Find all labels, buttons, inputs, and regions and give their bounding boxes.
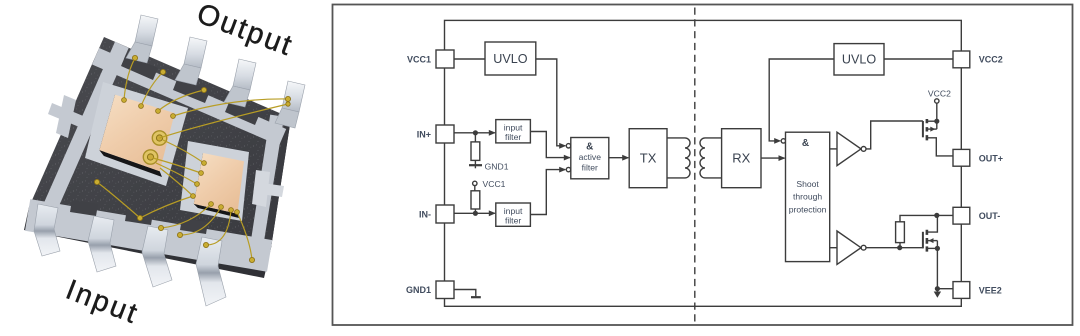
- die 1 coil pad A: [152, 131, 166, 145]
- wire VCC1 terminal to resistor R2: [474, 186, 476, 191]
- svg-text:VCC1: VCC1: [407, 54, 431, 64]
- svg-text:VCC2: VCC2: [928, 88, 951, 98]
- svg-text:Input: Input: [61, 274, 143, 331]
- junction node VEE2 wire: [935, 286, 940, 291]
- wire VCC1 pin to UVLO1: [454, 58, 485, 60]
- package body right side face: [264, 118, 291, 252]
- transistor Q1 body arrow: [930, 127, 935, 132]
- buffer U1 (top driver): [837, 132, 861, 165]
- die 2 side faces: [194, 153, 207, 208]
- bottom rail dark notches: [70, 200, 98, 216]
- bond wires die1 to die2: [163, 140, 204, 163]
- block RX: [722, 129, 761, 188]
- arrow into input filter 2: [489, 210, 496, 216]
- long bond wire bottom left: [97, 182, 140, 218]
- pin IN+: [436, 125, 454, 143]
- junction node OUT- drain: [934, 213, 939, 218]
- svg-text:through: through: [793, 192, 822, 202]
- inversion bubble active filter input 1: [566, 144, 570, 148]
- resistor R1: [471, 142, 480, 161]
- svg-text:UVLO: UVLO: [842, 53, 876, 67]
- transistor Q2 channel segments: [926, 230, 929, 252]
- ground GND1 internal: [469, 164, 482, 166]
- wire buffer1 to top MOSFET gate: [866, 121, 923, 149]
- package body (die-attach substrate): [29, 37, 291, 248]
- inversion bubble active filter input 3: [566, 167, 570, 171]
- leadframe left tie-bar T: [48, 103, 88, 129]
- block shoot-through protection AND: [786, 132, 830, 261]
- transistor Q2 gate bar: [922, 232, 924, 249]
- resistor R2: [471, 191, 480, 209]
- top rail dark notches: [121, 54, 158, 80]
- svg-text:VEE2: VEE2: [979, 286, 1002, 296]
- transformer primary coil: [685, 138, 690, 178]
- transistor Q1 channel segments: [926, 119, 929, 140]
- lead 8 (bottom): [196, 237, 226, 306]
- lead 4 (top right corner): [282, 81, 305, 112]
- isolation barrier dashed line: [694, 8, 696, 323]
- die pad 1 (left, silver): [85, 82, 188, 186]
- lead 1 (top): [135, 15, 158, 46]
- lead 3 (top): [233, 59, 256, 90]
- wire R3 bottom to junction: [899, 243, 901, 248]
- wire RX to shoot-through AND input 2: [761, 157, 785, 159]
- transistor Q2 source tick: [927, 247, 938, 249]
- svg-text:TX: TX: [640, 151, 657, 166]
- transistor Q1 drain to OUT+: [927, 138, 953, 156]
- die 1 coil pad B: [143, 150, 157, 164]
- arrow into active filter input 1: [559, 143, 566, 149]
- block TX: [629, 129, 667, 188]
- pin IN-: [436, 205, 454, 223]
- die pad 2 (right, silver): [180, 141, 249, 221]
- transistor Q1 gate bar: [922, 121, 924, 137]
- resistor R3: [896, 222, 905, 243]
- wire R2 to IN- wire junction: [474, 209, 476, 213]
- wire IN+ pin to input filter 1: [454, 132, 495, 134]
- lead 7 (bottom): [142, 226, 172, 287]
- leadframe top rail: [92, 48, 286, 146]
- svg-text:IN-: IN-: [419, 209, 431, 219]
- arrow into input filter 1: [489, 130, 496, 136]
- block input filter 2: [496, 203, 531, 226]
- transistor Q2 body arrow: [929, 238, 934, 243]
- pin OUT-: [953, 207, 970, 224]
- wire UVLO1 output to active filter input 1: [536, 59, 565, 146]
- bond wires die2 to bottom rail: [140, 196, 193, 218]
- arrow into AND input 1: [774, 138, 781, 144]
- buffer U2 bubble: [861, 245, 866, 250]
- wire input filter 2 to active filter input 3: [530, 170, 565, 215]
- wire to VEE2 pin: [937, 288, 953, 290]
- svg-text:VCC2: VCC2: [979, 54, 1003, 64]
- transformer secondary coil: [700, 138, 705, 178]
- die 2 (output die): [194, 153, 244, 214]
- wire UVLO2 to VCC2 pin: [884, 58, 953, 60]
- arrow into AND input 2: [779, 155, 786, 161]
- wire input filter 1 to active filter input 2: [530, 132, 569, 158]
- block UVLO1: [485, 42, 536, 75]
- bond wires die1 to top rail: [97, 58, 288, 260]
- arrow into active filter input 2: [564, 155, 571, 161]
- junction node Q2 source: [935, 246, 940, 251]
- pin VEE2: [953, 282, 970, 299]
- svg-text:UVLO: UVLO: [493, 52, 527, 66]
- lead 5 (bottom): [34, 204, 60, 256]
- bond stitch dots: [94, 55, 290, 262]
- panel frame: [333, 5, 1073, 326]
- package body bottom side face: [24, 207, 271, 278]
- wire Q2 body-source down to VEE2: [936, 241, 938, 292]
- wire UVLO2 to AND input 1: [769, 59, 834, 141]
- wire TX to transformer primary top: [667, 137, 685, 139]
- block active filter: [571, 138, 609, 179]
- wire R1 to ground: [474, 160, 476, 168]
- pin VCC1: [436, 50, 454, 68]
- svg-text:filter: filter: [505, 132, 521, 142]
- buffer U2 (bottom driver): [837, 231, 861, 264]
- chip outline rectangle: [445, 20, 962, 306]
- pin VCC2: [953, 51, 970, 68]
- pin OUT+: [953, 149, 970, 166]
- arrow down to substrate: [934, 292, 941, 298]
- svg-text:Shoot: Shoot: [796, 179, 819, 189]
- svg-text:Output: Output: [193, 0, 298, 63]
- block UVLO2: [834, 44, 884, 75]
- junction node top MOSFET source/body: [934, 119, 939, 124]
- transistor Q2 body line: [927, 240, 938, 242]
- transistor Q2 drain tick to OUT- junction: [927, 215, 938, 232]
- ground GND1 pin symbol bar: [471, 296, 481, 298]
- wire active filter to TX: [609, 157, 628, 159]
- svg-text:GND1: GND1: [485, 162, 509, 172]
- leadframe left rail: [40, 42, 129, 218]
- arrow into TX: [622, 155, 629, 161]
- wire OUT- line and R3 top: [900, 215, 953, 221]
- wire buffer2 to bottom MOSFET gate: [866, 247, 923, 249]
- svg-text:IN+: IN+: [417, 129, 431, 139]
- svg-text:filter: filter: [505, 215, 521, 225]
- svg-text:OUT+: OUT+: [979, 153, 1003, 163]
- wire transformer secondary bottom to RX: [705, 177, 722, 179]
- leadframe right rail: [250, 115, 284, 247]
- transistor Q1 source tick: [927, 120, 937, 122]
- die 1 side faces: [99, 95, 121, 156]
- wire AND to buffer 1: [830, 148, 837, 150]
- wire VCC2 terminal to top MOSFET source: [936, 103, 938, 129]
- VCC2 internal terminal circle: [935, 99, 939, 103]
- wire transformer secondary top to RX: [705, 137, 722, 139]
- transistor Q1 body line: [927, 128, 937, 130]
- wire GND1 pin to internal ground: [454, 290, 476, 297]
- svg-text:filter: filter: [582, 162, 598, 172]
- arrow into active filter input 3: [559, 167, 566, 173]
- svg-text:VCC1: VCC1: [483, 179, 506, 189]
- svg-text:GND1: GND1: [406, 285, 431, 295]
- svg-text:protection: protection: [789, 204, 827, 214]
- die 1 (input die): [99, 95, 174, 172]
- buffer U1 bubble: [861, 147, 866, 152]
- VCC1 internal terminal circle: [473, 181, 477, 185]
- svg-text:active: active: [579, 152, 602, 162]
- leadframe bottom rail: [25, 199, 272, 272]
- junction node gate resistor bottom: [897, 245, 902, 250]
- wire junction to resistor R1: [474, 133, 476, 142]
- inversion bubble AND input 1: [781, 139, 785, 143]
- lead 2 (top): [184, 37, 207, 68]
- svg-text:&: &: [802, 138, 809, 149]
- wire IN- pin to input filter 2: [454, 212, 495, 214]
- svg-text:OUT-: OUT-: [979, 211, 1001, 221]
- pin GND1: [436, 281, 454, 299]
- junction node on IN- wire: [473, 211, 478, 216]
- block input filter 1: [496, 120, 531, 143]
- svg-text:RX: RX: [732, 151, 750, 166]
- wire AND to buffer 2: [830, 247, 837, 249]
- wire TX to transformer primary bottom: [667, 177, 685, 179]
- leadframe right tie-bar T: [252, 170, 270, 207]
- lead 6 (bottom): [88, 216, 116, 272]
- junction node on IN+ wire: [473, 130, 478, 135]
